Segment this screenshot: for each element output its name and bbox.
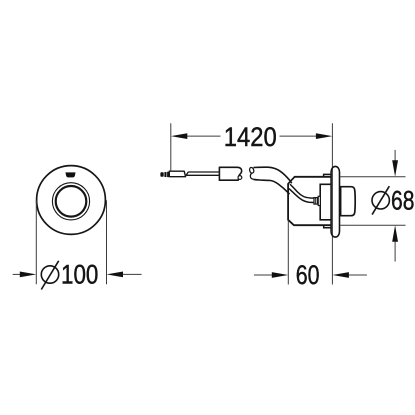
hose connector sleeve [169, 171, 185, 177]
Ø100 diameter symbol [41, 261, 58, 290]
hose broken-end cap [249, 167, 255, 179]
valve body [288, 177, 331, 225]
1420 left extension line [170, 123, 172, 171]
Ø100 dimension left arrow [13, 272, 37, 278]
1420 value label [224, 122, 277, 152]
hose nipple fitting [314, 196, 320, 205]
Ø68 value label [391, 186, 414, 216]
Ø68 dimension top arrow [392, 150, 398, 177]
button ring outer circle [52, 183, 89, 220]
bottom mounting tab [324, 225, 331, 228]
tube upper line inside body [290, 184, 314, 198]
extension line left of Ø100 [35, 200, 37, 284]
Ø68 diameter symbol [372, 186, 389, 214]
Ø68 top extension line [340, 176, 405, 178]
Ø68 dimension bottom arrow [392, 225, 398, 261]
cartridge neck [320, 184, 331, 220]
60 dimension right arrow [332, 272, 367, 278]
wall-plane extension line (right of 1420 / 60) [331, 123, 333, 284]
hose break cylinder [219, 167, 241, 180]
button ring inner circle [56, 186, 87, 217]
60 value label [296, 260, 320, 290]
60 left extension line [287, 221, 289, 285]
top mounting tab [324, 174, 331, 176]
hose end barbed plug [160, 172, 169, 177]
svg-text:100: 100 [61, 260, 98, 290]
indicator mark on plate [66, 173, 75, 177]
hose lower outline [253, 179, 289, 194]
1420 dimension line with arrows [171, 133, 333, 139]
tube lower line inside body [289, 189, 314, 203]
svg-text:68: 68 [391, 186, 414, 216]
60 dimension left arrow [254, 272, 288, 278]
wall flange [331, 166, 339, 237]
svg-text:60: 60 [296, 260, 320, 290]
hose thin rod segment [186, 172, 219, 175]
Ø68 bottom extension line [340, 224, 405, 226]
hose upper outline [253, 167, 291, 183]
push knob [341, 187, 356, 216]
button plate outer circle [37, 166, 106, 235]
extension line right of Ø100 [106, 200, 108, 284]
svg-text:1420: 1420 [224, 122, 277, 152]
Ø100 value label [61, 260, 98, 290]
Ø100 dimension right arrow [107, 272, 142, 278]
